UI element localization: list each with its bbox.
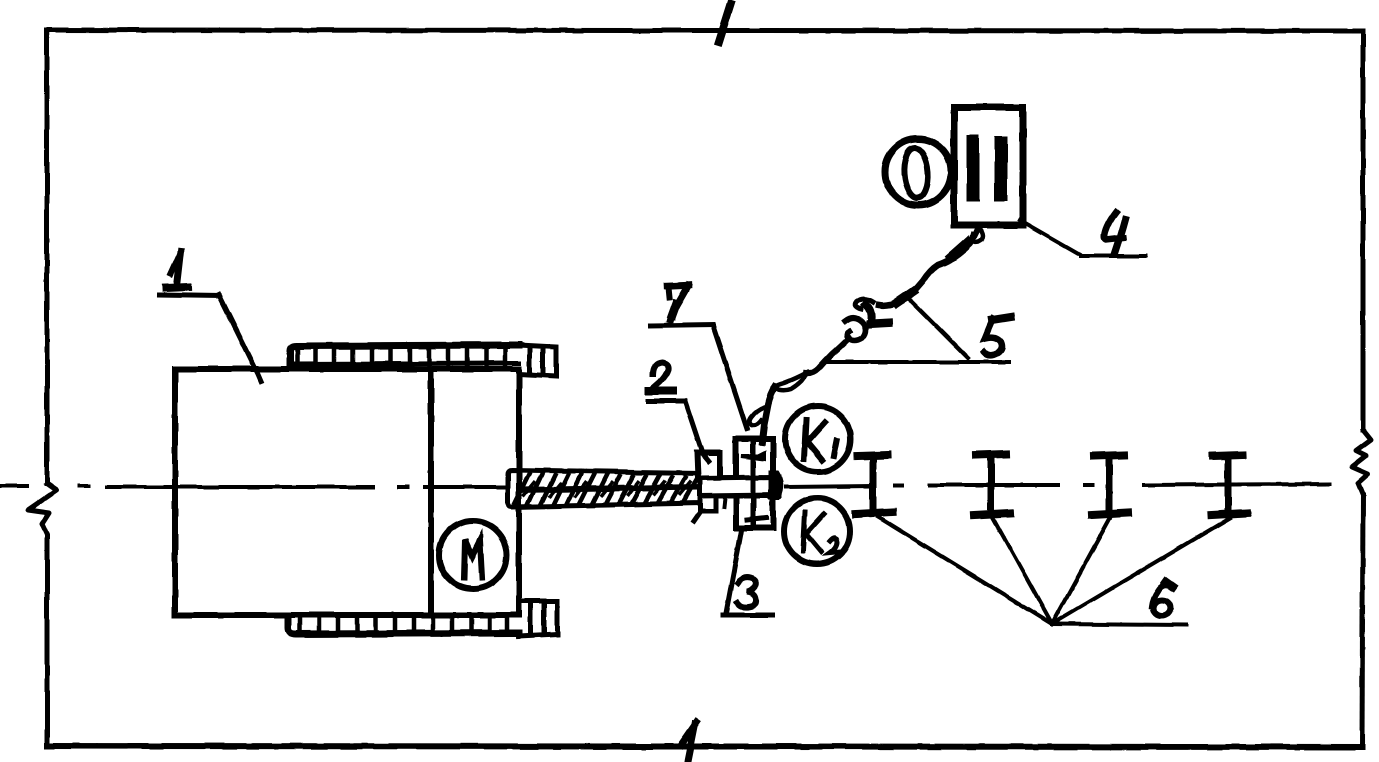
cable 5 upper run bbox=[879, 227, 979, 305]
cable lower descent bbox=[762, 387, 775, 442]
machine top rail end block bbox=[519, 345, 556, 376]
stop nub lower bbox=[700, 497, 716, 511]
I-beam mark b bbox=[988, 456, 995, 514]
motor circle M bbox=[439, 521, 507, 589]
label 7 leader bbox=[713, 326, 747, 429]
stop nub 2 upper bbox=[697, 453, 720, 477]
label 4 leader bbox=[1020, 220, 1081, 255]
contact circle K2 bbox=[784, 498, 850, 564]
cable knot b eye upper strand bbox=[774, 372, 808, 387]
stop nub lower tail bbox=[694, 511, 701, 521]
machine divider wall bbox=[428, 369, 434, 615]
label 2 leader bbox=[685, 401, 708, 461]
border frame top side bbox=[47, 30, 1363, 31]
label 3 bbox=[737, 578, 756, 608]
rod tick mark bbox=[724, 498, 725, 507]
cable petal curl bbox=[749, 406, 767, 425]
control box 4 bbox=[954, 107, 1023, 225]
label 1 underline bbox=[159, 295, 219, 296]
label 3 leader bbox=[726, 533, 741, 613]
border frame bottom side bbox=[47, 746, 1362, 747]
machine bottom rail strip bbox=[288, 616, 519, 634]
machine bottom rail end block bbox=[519, 601, 557, 636]
cable mid run bbox=[806, 338, 849, 373]
label 5 leader bbox=[907, 297, 968, 358]
label 2 bbox=[652, 363, 668, 389]
label 6 underline bbox=[1052, 624, 1186, 625]
border frame right side upper bbox=[1361, 31, 1366, 430]
push rod bbox=[700, 477, 779, 496]
border frame bottom break mark bbox=[681, 722, 697, 759]
screw thread hatching bbox=[515, 474, 698, 504]
border frame right zigzag break bbox=[1352, 430, 1371, 495]
border frame left side bbox=[45, 30, 50, 483]
motor letter M bbox=[464, 540, 482, 578]
carriage top divider bbox=[741, 453, 764, 459]
label 1 leader bbox=[219, 295, 261, 381]
carriage inner wall bbox=[751, 439, 756, 528]
label 1 bbox=[171, 252, 181, 274]
cable knot b eye lower strand bbox=[775, 374, 807, 390]
screw shaft bbox=[508, 470, 700, 507]
cable knot a squiggle bbox=[845, 318, 866, 341]
label 5 underline bbox=[824, 360, 1009, 364]
border frame top break mark bbox=[719, 4, 731, 42]
contact circle K1 bbox=[785, 406, 851, 472]
axis centerline (dash-dot) bbox=[0, 484, 27, 488]
box button bar left bbox=[967, 141, 980, 195]
border frame left zigzag break bbox=[28, 483, 57, 746]
letter K2 bbox=[803, 512, 841, 553]
leader fan to label 6 bbox=[878, 517, 1230, 624]
machine body 1 bbox=[175, 369, 431, 615]
cable thick joints upper bbox=[897, 242, 968, 303]
machine top rail strip bbox=[290, 345, 519, 368]
label 5 bbox=[992, 317, 1011, 320]
label 3 underline bbox=[723, 613, 772, 618]
indicator oval bbox=[902, 147, 929, 199]
rod end cap bbox=[771, 473, 781, 497]
label 7 underline bbox=[651, 325, 713, 326]
border frame right side lower bbox=[1362, 495, 1363, 747]
label 6 bbox=[1152, 585, 1171, 606]
machine right section bbox=[431, 369, 519, 615]
cable knot a crossbar bbox=[870, 323, 889, 324]
I-beam mark d bbox=[1225, 457, 1232, 514]
I-beam mark c bbox=[1106, 457, 1113, 514]
label 4 underline bbox=[1081, 254, 1146, 258]
box button bar right bbox=[995, 143, 1008, 195]
I-beam mark a bbox=[870, 456, 877, 513]
indicator circle O bbox=[885, 139, 951, 205]
label 2 underline bbox=[648, 399, 685, 404]
label 4 bbox=[1104, 212, 1123, 240]
cable knot a hook bbox=[856, 299, 873, 309]
letter K1 bbox=[804, 420, 837, 460]
carriage inner detail bbox=[747, 499, 766, 520]
cable knot a stem bbox=[866, 305, 871, 320]
carriage block 3 bbox=[736, 439, 773, 528]
label 7 bbox=[667, 285, 689, 286]
cable loop at box base bbox=[972, 228, 983, 242]
carriage rod pass-through bbox=[700, 477, 779, 496]
